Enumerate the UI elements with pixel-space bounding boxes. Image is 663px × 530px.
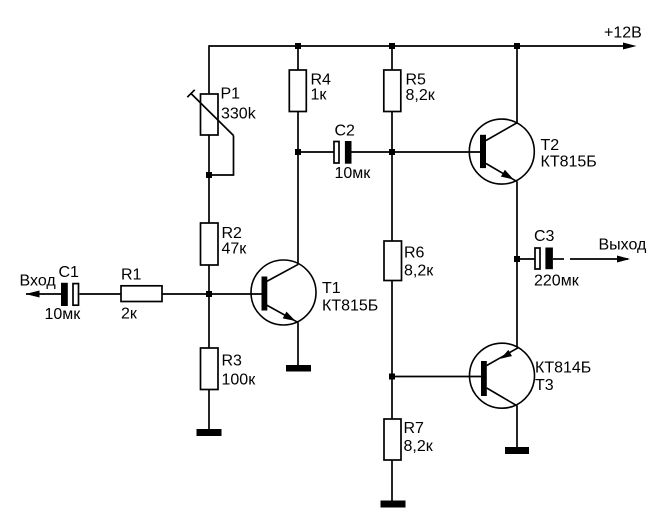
svg-text:R6: R6 — [404, 245, 425, 262]
svg-text:8,2к: 8,2к — [404, 263, 434, 280]
node C2 left junction — [295, 149, 301, 155]
wire R5 to C2 node — [391, 112, 393, 153]
svg-text:КТ815Б: КТ815Б — [541, 154, 597, 171]
svg-text:100к: 100к — [222, 372, 257, 389]
svg-text:8,2к: 8,2к — [406, 87, 436, 104]
node rail T2 junction — [514, 43, 520, 49]
wire input to C1 — [26, 293, 61, 295]
resistor R2 — [201, 223, 219, 265]
svg-text:С3: С3 — [534, 228, 555, 245]
ground R7 — [381, 501, 406, 508]
+12V arrowhead — [623, 43, 637, 50]
node P1 wiper junction — [206, 172, 212, 178]
wire P1 bottom to R2 — [208, 135, 210, 223]
transistor T3 — [470, 343, 535, 408]
svg-text:Т3: Т3 — [535, 377, 554, 394]
svg-text:220мк: 220мк — [534, 273, 580, 290]
svg-text:R2: R2 — [222, 225, 243, 242]
svg-text:10мк: 10мк — [335, 165, 372, 182]
wire T1 emitter down — [297, 322, 299, 365]
svg-text:КТ815Б: КТ815Б — [322, 298, 378, 315]
wire T2 emitter down to output node — [516, 181, 518, 259]
node rail R4 junction — [295, 43, 301, 49]
svg-text:R7: R7 — [404, 420, 425, 437]
svg-text:2к: 2к — [121, 306, 138, 323]
wire T3 base node to T3 base — [392, 376, 481, 378]
wire R4 to C2 node — [297, 112, 299, 153]
wire T3 collector to ground — [516, 406, 518, 448]
node T3 base junction — [389, 374, 395, 380]
svg-text:R5: R5 — [406, 72, 427, 89]
wire R1 to base node — [162, 293, 209, 295]
svg-text:Вход: Вход — [20, 273, 57, 290]
resistor R3 — [201, 348, 219, 390]
ground T1 — [286, 365, 311, 372]
svg-text:КТ814Б: КТ814Б — [535, 360, 591, 377]
wire rail to R5 — [391, 46, 393, 70]
wire R6 to T3 base node — [391, 281, 393, 377]
svg-text:P1: P1 — [221, 86, 241, 103]
output arrowhead — [617, 256, 630, 263]
input arrowhead — [26, 291, 40, 298]
svg-text:8,2к: 8,2к — [404, 438, 434, 455]
ground T3 — [505, 447, 529, 454]
wire base node to T1 base — [209, 293, 262, 295]
wire +12V top rail — [209, 45, 625, 47]
ground R3 — [197, 429, 222, 436]
svg-text:47к: 47к — [222, 241, 248, 258]
node T1 base junction — [206, 291, 212, 297]
svg-text:С2: С2 — [335, 123, 356, 140]
capacitor C2 — [298, 141, 392, 164]
transistor T1 — [251, 260, 316, 325]
wire R3 to ground — [208, 390, 210, 430]
wire C1 to R1 — [80, 293, 122, 295]
wire base node to R3 — [208, 294, 210, 348]
wire T3 base node to R7 — [391, 377, 393, 420]
resistor R1 — [121, 286, 162, 302]
svg-text:10мк: 10мк — [45, 306, 82, 323]
capacitor C3 — [517, 248, 628, 270]
svg-text:С1: С1 — [59, 264, 80, 281]
node rail R5 junction — [389, 43, 395, 49]
capacitor C1 — [61, 283, 79, 306]
svg-text:Выход: Выход — [599, 237, 648, 254]
wire T1 collector up — [297, 152, 299, 264]
node C2 right junction — [389, 149, 395, 155]
resistor R6 — [384, 241, 402, 281]
transistor T2 — [469, 119, 534, 184]
svg-text:1к: 1к — [311, 87, 328, 104]
resistor R4 — [289, 70, 306, 112]
wire C2 node to R6 — [391, 152, 393, 241]
wire R7 to ground — [391, 460, 393, 501]
resistor R5 — [384, 70, 401, 112]
resistor R7 — [384, 419, 401, 460]
svg-text:+12В: +12В — [604, 25, 642, 42]
svg-text:R3: R3 — [222, 353, 243, 370]
wire T2 collector up — [516, 46, 518, 123]
wire P1 top feed — [208, 45, 210, 94]
svg-text:R1: R1 — [121, 267, 142, 284]
node output junction — [514, 256, 520, 262]
wire C2 node to T2 base — [392, 151, 480, 153]
svg-text:330k: 330k — [221, 106, 257, 123]
svg-text:Т2: Т2 — [541, 137, 560, 154]
potentiometer P1 — [187, 90, 233, 175]
wire output node down to T3 — [516, 259, 518, 348]
svg-text:Т1: Т1 — [322, 280, 341, 297]
wire rail to R4 — [297, 46, 299, 70]
wire R2 bottom to base node — [208, 265, 210, 294]
